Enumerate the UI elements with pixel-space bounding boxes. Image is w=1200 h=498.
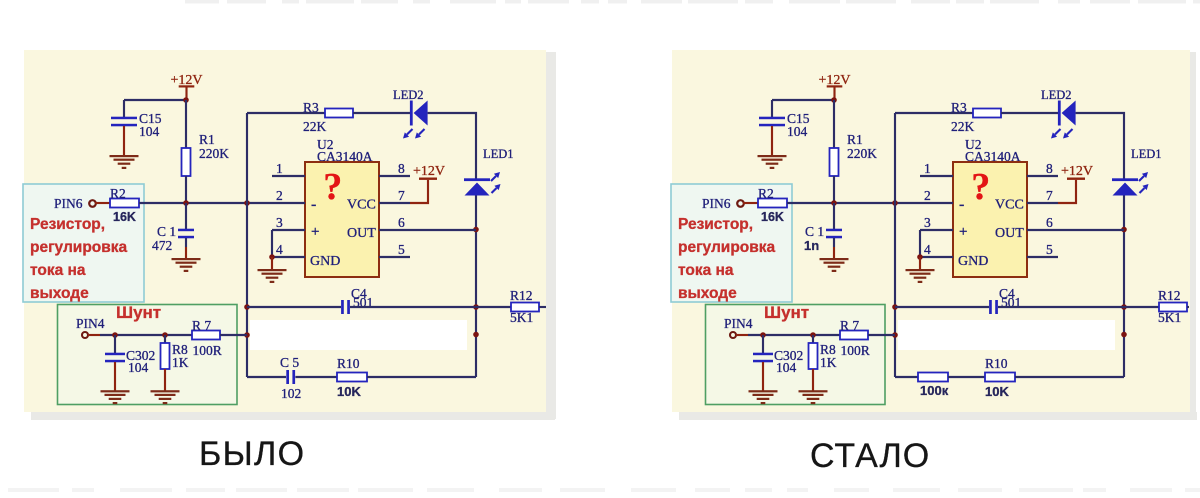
junction C4 row right (right) [1121, 304, 1127, 310]
svg-text:102: 102 [281, 386, 301, 401]
capacitor C1 (right) [833, 203, 835, 230]
svg-text:5: 5 [398, 242, 405, 257]
wire R2 to op-amp pin2 [139, 202, 272, 204]
svg-text:R3: R3 [951, 100, 967, 115]
wire R2 to op-amp pin2 (right) [787, 202, 920, 204]
svg-text:R10: R10 [337, 356, 360, 371]
junction +12V node (right) [831, 97, 837, 103]
wire bottom row left segment (right) [895, 376, 918, 378]
white erased-wire patch [250, 320, 467, 350]
svg-text:R12: R12 [1158, 288, 1181, 303]
svg-text:-: - [959, 196, 964, 213]
svg-text:LED1: LED1 [483, 147, 514, 161]
svg-text:2: 2 [924, 188, 931, 203]
wire +12V node to C15 [124, 99, 186, 101]
wire C5 to R10 [295, 376, 337, 378]
op-amp pin 4 [272, 256, 305, 258]
resistor R8 [164, 335, 166, 343]
faint cropped text row (bottom) [8, 488, 59, 492]
ground below C1 [185, 238, 187, 247]
svg-text:VCC: VCC [995, 198, 1024, 213]
op-amp pin 2 (right) [920, 202, 953, 204]
svg-text:R1: R1 [847, 132, 863, 147]
ground below C15 [123, 126, 125, 156]
junction erased row right (right) [1121, 332, 1127, 338]
svg-text:7: 7 [1046, 188, 1053, 203]
svg-text:LED2: LED2 [1041, 88, 1072, 102]
svg-text:LED1: LED1 [1131, 147, 1162, 161]
ground below C302 [114, 362, 116, 391]
annotation box (cyan) around R2 [23, 184, 144, 302]
wire pin6 OUT to LED1 net (right) [1058, 229, 1124, 231]
svg-text:100R: 100R [841, 343, 870, 358]
svg-text:5K1: 5K1 [1158, 310, 1181, 325]
resistor R3 (right) [973, 109, 1001, 118]
op-amp pin 6 (right) [1027, 229, 1058, 231]
svg-text:1K: 1K [172, 355, 189, 370]
wire LED2 to right vertical [428, 113, 476, 179]
right vertical wire below LED1 (right) [1123, 196, 1125, 378]
faint cropped text row (top) [185, 0, 219, 4]
capacitor C5 [286, 370, 289, 384]
resistor R12 (right) [1159, 303, 1187, 312]
wire bottom row left segment [247, 376, 286, 378]
wire 100k to R10 (right) [948, 376, 985, 378]
svg-text:R3: R3 [303, 100, 319, 115]
panel shadow bottom [31, 412, 555, 420]
feedback wire left vertical (right) [894, 113, 896, 377]
resistor 100k (right) [918, 373, 948, 382]
panel shadow bottom (right) [679, 412, 1197, 420]
svg-text:R1: R1 [199, 132, 215, 147]
svg-text:1K: 1K [820, 355, 837, 370]
svg-text:VCC: VCC [347, 198, 376, 213]
resistor R12 [511, 303, 539, 312]
capacitor C1 [185, 203, 187, 230]
svg-text:БЫЛО: БЫЛО [199, 435, 305, 473]
junction R8 [162, 332, 168, 338]
svg-text:выходе: выходе [678, 285, 737, 302]
svg-text:R2: R2 [758, 186, 774, 201]
svg-text:+: + [959, 224, 967, 240]
svg-text:тока на: тока на [30, 262, 86, 279]
resistor R8 (right) [812, 335, 814, 343]
wire R12 to edge [539, 306, 546, 308]
svg-text:2: 2 [276, 188, 283, 203]
wire R12 to edge (right) [1187, 306, 1189, 308]
resistor R10 (right) [985, 373, 1015, 382]
svg-text:6: 6 [398, 215, 405, 230]
svg-text:5: 5 [1046, 242, 1053, 257]
wire C4 to R12 [350, 306, 511, 308]
svg-text:+12V: +12V [413, 164, 445, 179]
svg-text:220K: 220K [199, 146, 229, 161]
white erased-wire patch (right) [898, 320, 1115, 350]
wire LED2 to right vertical (right) [1076, 113, 1124, 179]
svg-text:7: 7 [398, 188, 405, 203]
svg-text:?: ? [971, 166, 990, 208]
op-amp pin 8 (right) [1027, 175, 1058, 177]
svg-text:104: 104 [787, 124, 808, 139]
svg-text:16K: 16K [761, 210, 784, 224]
svg-text:?: ? [323, 166, 342, 208]
resistor R1 [185, 100, 187, 148]
ground below R8 (right) [812, 369, 814, 391]
panel shadow right (right) [1190, 52, 1196, 419]
wire pin3 to pin4 and ground (right) [919, 230, 921, 257]
resistor R3 [325, 109, 353, 118]
junction R1/C1 on pin2 wire [183, 200, 189, 206]
op-amp pin 3 (right) [920, 229, 953, 231]
capacitor C4 (right) [989, 300, 992, 314]
op-amp pin 8 [379, 175, 410, 177]
svg-text:PIN6: PIN6 [702, 196, 731, 211]
junction R8 (right) [810, 332, 816, 338]
svg-text:PIN4: PIN4 [724, 316, 753, 331]
svg-text:4: 4 [276, 242, 283, 257]
svg-text:Резистор,: Резистор, [30, 216, 105, 233]
annotation box (green) around shunt (right) [706, 305, 886, 405]
junction OUT row (right) [1121, 227, 1127, 233]
schematic panel background [24, 50, 546, 412]
wire R3 to LED2 [353, 112, 411, 114]
junction feedback/R7 row (right) [892, 332, 898, 338]
svg-text:10K: 10K [337, 384, 361, 399]
capacitor C302 [114, 335, 116, 354]
junction OUT row [473, 227, 479, 233]
wire top row [247, 112, 325, 114]
wire +12V node to C15 (right) [772, 99, 834, 101]
svg-text:3: 3 [924, 215, 931, 230]
svg-text:СТАЛО: СТАЛО [810, 437, 930, 475]
resistor R7 [192, 331, 220, 340]
svg-text:104: 104 [139, 124, 160, 139]
svg-text:+12V: +12V [1061, 164, 1093, 179]
op-amp pin 1 (right) [920, 175, 953, 177]
svg-text:регулировка: регулировка [678, 239, 776, 256]
svg-text:GND: GND [310, 254, 340, 269]
junction R1/C1 on pin2 wire (right) [831, 200, 837, 206]
wire R3 to LED2 (right) [1001, 112, 1059, 114]
svg-text:OUT: OUT [995, 226, 1024, 241]
svg-text:Шунт: Шунт [116, 303, 161, 322]
op-amp pin 2 [272, 202, 305, 204]
junction feedback/C4 row (right) [892, 304, 898, 310]
capacitor C4 [341, 300, 344, 314]
panel shadow right [546, 52, 556, 419]
op-amp pin 7 [379, 202, 410, 204]
wire C4 row left [247, 306, 341, 308]
ground below C15 (right) [771, 126, 773, 156]
svg-text:C 1: C 1 [157, 224, 176, 239]
op-amp pin 7 (right) [1027, 202, 1058, 204]
wire R7 to feedback vertical [220, 334, 247, 336]
svg-text:104: 104 [128, 360, 149, 375]
wire R10 to right vertical (right) [1015, 376, 1124, 378]
annotation box (cyan) around R2 (right) [671, 184, 792, 302]
svg-text:1: 1 [276, 161, 283, 176]
capacitor C302 (right) [762, 335, 764, 354]
svg-text:16K: 16K [113, 210, 136, 224]
svg-text:104: 104 [776, 360, 797, 375]
svg-text:тока на: тока на [678, 262, 734, 279]
annotation box (green) around shunt [58, 305, 238, 405]
wire C4 row left (right) [895, 306, 989, 308]
op-amp pin 1 [272, 175, 305, 177]
svg-text:220K: 220K [847, 146, 877, 161]
svg-text:R 7: R 7 [192, 318, 211, 333]
wire R7 to feedback vertical (right) [868, 334, 895, 336]
svg-text:OUT: OUT [347, 226, 376, 241]
svg-text:3: 3 [276, 215, 283, 230]
svg-text:Шунт: Шунт [764, 303, 809, 322]
resistor R2 [110, 199, 139, 208]
resistor R1 (right) [833, 100, 835, 148]
svg-text:Резистор,: Резистор, [678, 216, 753, 233]
junction feedback/R7 row [244, 332, 250, 338]
resistor R7 (right) [840, 331, 868, 340]
svg-text:PIN6: PIN6 [54, 196, 83, 211]
feedback wire left vertical [246, 113, 248, 377]
svg-text:выходе: выходе [30, 285, 89, 302]
svg-text:C 5: C 5 [280, 355, 299, 370]
junction C302 [112, 332, 118, 338]
junction erased row right [473, 332, 479, 338]
ground below C1 (right) [833, 238, 835, 247]
wire pin3 to pin4 and ground [271, 230, 273, 257]
op-amp pin 4 (right) [920, 256, 953, 258]
svg-text:-: - [311, 196, 316, 213]
svg-text:регулировка: регулировка [30, 239, 128, 256]
junction C4 row right [473, 304, 479, 310]
svg-text:C 1: C 1 [805, 224, 824, 239]
capacitor C15 [123, 100, 125, 118]
resistor R2 (right) [758, 199, 787, 208]
svg-text:R12: R12 [510, 288, 533, 303]
junction feedback/C4 row [244, 304, 250, 310]
svg-text:1: 1 [924, 161, 931, 176]
svg-text:+: + [311, 224, 319, 240]
svg-text:R 7: R 7 [840, 318, 859, 333]
right vertical wire below LED1 [475, 196, 477, 378]
op-amp pin 5 (right) [1027, 256, 1058, 258]
svg-text:472: 472 [152, 238, 172, 253]
svg-text:100к: 100к [920, 383, 949, 398]
ground below C302 (right) [762, 362, 764, 391]
wire C4 to R12 (right) [998, 306, 1159, 308]
svg-text:100R: 100R [193, 343, 222, 358]
svg-text:5K1: 5K1 [510, 310, 533, 325]
svg-text:LED2: LED2 [393, 88, 424, 102]
svg-text:8: 8 [398, 161, 405, 176]
svg-text:6: 6 [1046, 215, 1053, 230]
svg-text:22K: 22K [951, 119, 975, 134]
svg-text:22K: 22K [303, 119, 327, 134]
junction +12V node [183, 97, 189, 103]
wire top row (right) [895, 112, 973, 114]
junction feedback on pin2 wire (right) [892, 200, 898, 206]
junction feedback on pin2 wire [244, 200, 250, 206]
svg-text:4: 4 [924, 242, 931, 257]
svg-text:8: 8 [1046, 161, 1053, 176]
svg-text:R2: R2 [110, 186, 126, 201]
svg-text:PIN4: PIN4 [76, 316, 105, 331]
wire R10 to right vertical [367, 376, 476, 378]
op-amp pin 6 [379, 229, 410, 231]
op-amp pin 3 [272, 229, 305, 231]
svg-text:R10: R10 [985, 356, 1008, 371]
svg-text:GND: GND [958, 254, 988, 269]
capacitor C15 (right) [771, 100, 773, 118]
ground below R8 [164, 369, 166, 391]
wire PIN4 to R7 [100, 334, 192, 336]
junction C302 (right) [760, 332, 766, 338]
op-amp pin 5 [379, 256, 410, 258]
wire PIN4 to R7 (right) [748, 334, 840, 336]
wire pin6 OUT to LED1 net [410, 229, 476, 231]
schematic panel background (right) [672, 50, 1190, 412]
svg-text:1n: 1n [804, 238, 819, 253]
resistor R10 [337, 373, 367, 382]
svg-text:10K: 10K [985, 384, 1009, 399]
